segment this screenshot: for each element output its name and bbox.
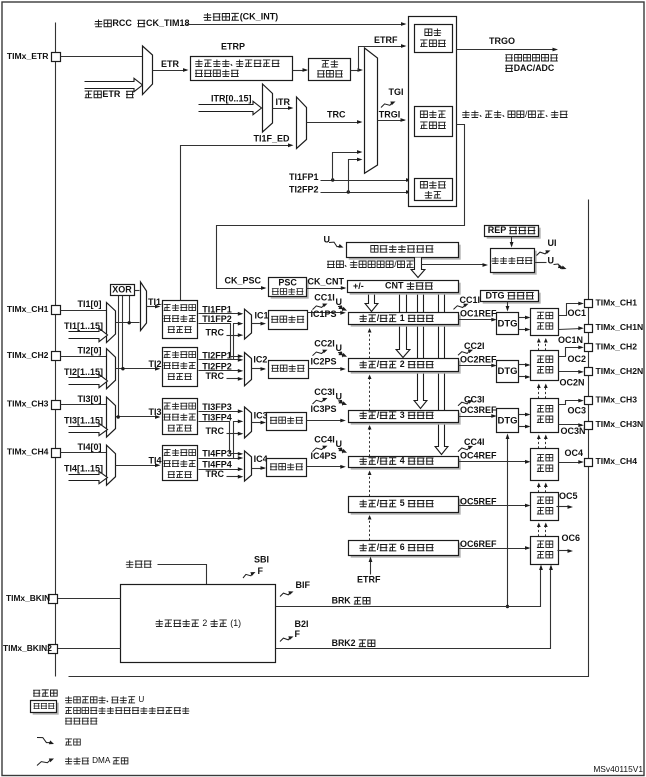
label TI2FP1 xyxy=(202,351,232,361)
label auto reload reg xyxy=(371,245,434,253)
label B2I F xyxy=(295,629,301,639)
svg-text:5: 5 xyxy=(400,498,405,508)
svg-text:IC4PS: IC4PS xyxy=(311,451,337,461)
svg-text:TI1FP1: TI1FP1 xyxy=(202,304,232,314)
label ETRP xyxy=(221,42,245,52)
label slave mode line2 xyxy=(420,122,446,129)
svg-text:1: 1 xyxy=(400,313,405,323)
label OC3 xyxy=(568,405,587,415)
label TRC top xyxy=(327,110,346,120)
wire TI2FP2 in xyxy=(199,369,244,373)
svg-text:CC3I: CC3I xyxy=(464,394,485,404)
label TI30 xyxy=(78,394,102,404)
wire capture event dashed 2-3 xyxy=(369,377,371,411)
svg-text:DTG: DTG xyxy=(498,366,518,377)
svg-text:BRK2: BRK2 xyxy=(332,638,356,648)
label CC2I left xyxy=(314,339,335,349)
bus TI41..15 xyxy=(69,471,108,483)
wire output event dashed 4-5 x545 xyxy=(545,485,547,493)
pin TIMx_CH3 xyxy=(585,397,593,405)
svg-text:TIMx_CH3N: TIMx_CH3N xyxy=(596,419,644,429)
svg-text:F: F xyxy=(295,629,301,639)
bus CNT to capture 3 xyxy=(414,293,427,409)
svg-text:TRC: TRC xyxy=(206,426,225,436)
label B2I xyxy=(295,619,309,629)
svg-text:(CK_INT): (CK_INT) xyxy=(240,12,279,22)
label TI31-15 xyxy=(64,415,103,425)
legend text line2 xyxy=(65,707,189,714)
label ETRF top xyxy=(374,35,398,45)
wire ETRF to trigger mux xyxy=(351,68,364,72)
svg-text:TI4FP3: TI4FP3 xyxy=(202,449,232,459)
label encoder line1 xyxy=(420,181,445,188)
pin TIMx_CH2N xyxy=(585,368,593,376)
event arrow U down xyxy=(554,264,567,269)
wire TI4 to filter xyxy=(116,463,161,467)
event arrow BIF xyxy=(280,591,294,596)
label outctl2 l2 xyxy=(537,366,553,373)
block XOR xyxy=(111,285,135,296)
label capture 1 xyxy=(359,313,433,323)
node BRK junction xyxy=(506,605,509,608)
event arrow U CC2I left xyxy=(338,352,347,357)
label filter4 l1 xyxy=(164,449,196,456)
label PSC xyxy=(278,278,297,288)
wire U out of repetition counter xyxy=(535,262,547,264)
svg-text:TIMx_CH2: TIMx_CH2 xyxy=(7,350,49,360)
label IC4PS xyxy=(311,451,337,461)
label TI1 xyxy=(148,297,164,307)
label TI10 xyxy=(78,299,102,309)
wire TI1[0] xyxy=(61,310,107,312)
pin TIMx_BKIN2 xyxy=(49,645,58,654)
svg-text:OC4: OC4 xyxy=(565,448,584,458)
mux ETR source select xyxy=(143,46,153,95)
wire slave ctrl to prescaler xyxy=(217,125,465,290)
svg-text:DTG: DTG xyxy=(486,290,505,300)
wire TI2 to filter xyxy=(116,367,161,371)
label trigger ctrl line2 xyxy=(420,40,446,47)
block capture compare register 6 xyxy=(349,541,461,558)
label OC6 xyxy=(562,533,581,543)
mux TI1 input select xyxy=(107,303,116,343)
node XOR tap CH3 xyxy=(117,415,120,418)
wire TI3FP4 cross down xyxy=(199,422,244,456)
wire capture event dashed 1-2 xyxy=(369,331,371,359)
label OC2REF xyxy=(460,354,497,364)
label capture 2 xyxy=(359,359,433,369)
block input filter edge detector CH3 xyxy=(163,399,198,435)
mux IC2 select xyxy=(245,353,252,386)
block controller container xyxy=(409,17,457,207)
svg-text:DMA: DMA xyxy=(92,756,111,765)
block input filter xyxy=(309,59,351,81)
svg-text:DTG: DTG xyxy=(498,318,518,329)
label filter2 l3 xyxy=(168,373,192,379)
wire IC3 out xyxy=(252,421,267,425)
block prescaler IC2 xyxy=(269,361,309,379)
label input filter line2 xyxy=(317,71,343,78)
svg-text:TRC: TRC xyxy=(206,469,225,479)
label filter4 l3 xyxy=(168,471,192,477)
event arrow U CC4I left xyxy=(338,448,347,453)
block REP register xyxy=(485,226,541,239)
label BIF xyxy=(296,580,311,590)
block output control 2 xyxy=(531,351,559,381)
svg-text:CC2I: CC2I xyxy=(464,341,485,351)
mux TI4 input select xyxy=(107,445,116,485)
label TI2 xyxy=(149,359,165,369)
wire IC4 out xyxy=(252,466,267,470)
svg-text:TI2FP2: TI2FP2 xyxy=(289,185,319,195)
svg-text:TI1FP1: TI1FP1 xyxy=(289,172,319,182)
event arrow CC3I left xyxy=(313,398,328,404)
wire CK_INT internal clock xyxy=(187,22,407,26)
label TI3 xyxy=(149,407,165,417)
event arrow U to ARR xyxy=(329,242,344,248)
svg-text:TI3,: TI3, xyxy=(149,407,165,417)
wire TI2FP2 branch to trigger mux xyxy=(349,158,363,193)
event arrow CC4I right xyxy=(458,446,473,452)
wire output event dashed 5-6 x538 xyxy=(538,525,540,537)
wire DTG3 out b xyxy=(519,425,531,429)
svg-text:TRC: TRC xyxy=(206,327,225,337)
label OC2 xyxy=(568,354,587,364)
svg-text:CK_PSC: CK_PSC xyxy=(225,276,262,286)
wire TI2FP2 to encoder xyxy=(321,190,412,194)
label TGI xyxy=(389,87,404,97)
label break circuit xyxy=(155,618,241,628)
block DTG register xyxy=(481,291,541,304)
event arrow B2IF xyxy=(280,636,294,641)
block auto-reload register xyxy=(347,243,461,260)
wire OC1 xyxy=(559,302,584,316)
wire OC2N xyxy=(559,370,584,374)
wire TRC ch1 xyxy=(227,333,244,337)
block output control 6 xyxy=(531,537,559,565)
event arrow TGI xyxy=(381,102,396,108)
mux IC4 select xyxy=(245,451,252,481)
wire capture event dashed 5-6 xyxy=(369,518,371,541)
wire OC3REF xyxy=(459,414,497,418)
svg-text:OC5REF: OC5REF xyxy=(460,496,497,506)
block prescaler IC1 xyxy=(269,311,308,330)
svg-text:TI3[1..15]: TI3[1..15] xyxy=(64,415,103,425)
wire BRK to DTG3 xyxy=(506,434,510,607)
label CC1I right xyxy=(460,295,481,305)
svg-text:TIMx_CH4: TIMx_CH4 xyxy=(7,447,49,457)
wire ETRF to capture 6 xyxy=(369,557,373,575)
svg-text:TI1[0]: TI1[0] xyxy=(78,299,102,309)
svg-text:ITR: ITR xyxy=(276,97,291,107)
wire XOR tap CH2 xyxy=(122,296,124,369)
svg-text:OC2N: OC2N xyxy=(560,377,585,387)
label TI1FP2 xyxy=(202,314,232,324)
wire BKIN2 to break xyxy=(58,648,121,650)
svg-text:OC2: OC2 xyxy=(568,354,587,364)
label U CC2I left xyxy=(336,343,343,353)
label repetition counter xyxy=(492,257,533,264)
label TI1FP1 trig xyxy=(289,172,319,182)
wire XOR tap CH3 xyxy=(118,296,120,417)
wire TI3FP3 xyxy=(199,409,244,413)
label ITR xyxy=(276,97,291,107)
label OC1REF xyxy=(460,308,497,318)
node TI1FP1 junction xyxy=(331,178,334,181)
svg-text:TIMx_CH3: TIMx_CH3 xyxy=(7,399,49,409)
label filter3 l3 xyxy=(168,425,192,431)
event arrow SBIF xyxy=(243,572,256,578)
svg-text:OC6: OC6 xyxy=(562,533,581,543)
svg-text:TRC: TRC xyxy=(327,110,346,120)
wire bottom bus xyxy=(69,200,589,677)
svg-text:TGI: TGI xyxy=(389,87,404,97)
svg-text:IC4: IC4 xyxy=(254,454,268,464)
label to DAC ADC xyxy=(505,63,555,73)
svg-text:TIMx_CH2N: TIMx_CH2N xyxy=(596,366,644,376)
legend text line3 xyxy=(65,718,97,724)
label TRGO xyxy=(489,36,515,46)
svg-text:IC3PS: IC3PS xyxy=(311,404,337,414)
label CC4I right xyxy=(464,437,485,447)
svg-text:2: 2 xyxy=(202,618,207,628)
wire ETR pin to mux xyxy=(61,56,143,58)
svg-text:PSC: PSC xyxy=(278,278,297,288)
label TRC ch3 xyxy=(206,426,225,436)
label OC5 xyxy=(559,491,578,501)
wire OC1REF xyxy=(459,318,497,322)
mux TI2 input select xyxy=(107,349,116,389)
wire DTG2 out a xyxy=(519,363,531,367)
wire ITR xyxy=(273,106,294,110)
svg-text:OC3REF: OC3REF xyxy=(460,405,497,415)
wire TI2FP1 cross up xyxy=(199,322,244,360)
block capture compare register 3 xyxy=(349,411,461,425)
wire DTG1 out b xyxy=(519,328,531,332)
svg-text:TIMx_CH3: TIMx_CH3 xyxy=(596,395,638,405)
label plus minus xyxy=(353,281,364,291)
wire IC1PS xyxy=(308,311,346,315)
block input filter edge detector CH2 xyxy=(163,348,198,387)
wire TRC ch3 xyxy=(227,432,244,436)
svg-text:TIMx_CH1: TIMx_CH1 xyxy=(596,298,638,308)
block capture compare register 1 xyxy=(349,313,461,327)
event arrow CC1I right xyxy=(454,304,469,310)
block capture compare register 2 xyxy=(349,359,461,374)
label TI2FP2 trig xyxy=(289,185,319,195)
label TI3FP3 xyxy=(202,402,232,412)
wire TI4[0] xyxy=(61,452,107,454)
wire TI4FP3 cross up xyxy=(199,420,244,459)
wire OC3N xyxy=(559,423,584,427)
svg-text:OC1: OC1 xyxy=(568,308,587,318)
svg-text:ETRF: ETRF xyxy=(374,35,398,45)
svg-text:OC3: OC3 xyxy=(568,405,587,415)
label outctl4 l1 xyxy=(537,454,553,461)
label polarity box line1 xyxy=(195,60,279,67)
label outctl5 l2 xyxy=(537,507,553,514)
label TI1F_ED xyxy=(254,134,291,144)
svg-text:IC1PS: IC1PS xyxy=(311,309,337,319)
svg-text:3: 3 xyxy=(400,410,405,420)
event arrow CC2I right xyxy=(458,350,473,356)
pin TIMx_ETR xyxy=(52,53,61,62)
label U rep xyxy=(548,255,555,265)
svg-text:TI3FP4: TI3FP4 xyxy=(202,412,232,422)
svg-text:DAC/ADC: DAC/ADC xyxy=(514,63,555,73)
wire TI1FP2 cross down xyxy=(199,324,244,359)
svg-text:CC3I: CC3I xyxy=(314,387,335,397)
bus TI31..15 xyxy=(69,423,108,435)
wire TRC xyxy=(307,120,363,124)
svg-text:2: 2 xyxy=(400,359,405,369)
label OC3N xyxy=(561,426,586,436)
wire DTG2 out b xyxy=(519,375,531,379)
block input filter edge detector CH1 xyxy=(163,301,198,339)
block repetition counter xyxy=(491,249,537,275)
wire OC6 xyxy=(558,549,574,553)
label TRC ch4 xyxy=(206,469,225,479)
block DTG 3 xyxy=(497,409,519,433)
label U arr xyxy=(324,235,331,245)
wire BRK request xyxy=(276,565,543,607)
svg-text:TIMx_ETR: TIMx_ETR xyxy=(7,51,49,61)
legend interrupt DMA symbol xyxy=(37,759,54,766)
label legend register xyxy=(34,703,55,708)
mux IC3 select xyxy=(245,407,252,438)
label DTG1 text xyxy=(498,318,518,329)
legend text line1 xyxy=(65,695,144,704)
svg-text:MSv40115V1: MSv40115V1 xyxy=(593,764,643,774)
svg-text:CC1I: CC1I xyxy=(314,293,335,303)
wire output event dashed 3-4 x538 xyxy=(538,437,540,449)
wire internal source xyxy=(158,565,207,585)
label internal source xyxy=(126,560,152,567)
wire OC5 xyxy=(557,505,574,509)
label OC2N xyxy=(560,377,585,387)
label IC3PS xyxy=(311,404,337,414)
svg-text:TRGO: TRGO xyxy=(489,36,515,46)
pin TIMx_CH3N xyxy=(585,422,593,430)
bus CNT to capture 4 xyxy=(435,293,448,455)
label filter3 l1 xyxy=(164,403,196,410)
svg-text:TIMx_BKIN2: TIMx_BKIN2 xyxy=(3,643,52,653)
wire DTG1 out a xyxy=(519,316,531,320)
label TI3FP4 xyxy=(202,412,232,422)
label CK_CNT xyxy=(308,276,345,286)
svg-text:CK_CNT: CK_CNT xyxy=(308,276,345,286)
label outctl6 l1 xyxy=(537,541,553,548)
label TI41-15 xyxy=(64,464,103,474)
wire BKIN to break xyxy=(58,598,121,600)
label OC4REF xyxy=(460,451,497,461)
svg-text:BIF: BIF xyxy=(296,580,311,590)
svg-text:TI2FP2: TI2FP2 xyxy=(202,361,232,371)
bus TI11..15 xyxy=(69,328,108,341)
label OC3REF xyxy=(460,405,497,415)
svg-text:(1): (1) xyxy=(230,618,241,628)
mux IC1 select xyxy=(245,309,252,339)
wire BRK2 request xyxy=(276,565,553,649)
wire output event dashed 2-3 x545 xyxy=(545,387,547,399)
label TI40 xyxy=(78,442,102,452)
label IC1 xyxy=(255,310,269,320)
wire output event dashed 2-3 x538 xyxy=(538,387,540,399)
label capture 5 xyxy=(359,498,433,508)
svg-text:XOR: XOR xyxy=(112,284,132,294)
svg-text:TI4[0]: TI4[0] xyxy=(78,442,102,452)
wire IC1 out xyxy=(252,322,267,326)
label TI11-15 xyxy=(64,321,103,331)
block CNT counter xyxy=(348,281,461,295)
label outctl2 l1 xyxy=(537,356,553,363)
label polarity box line2 xyxy=(195,70,239,77)
wire TRGI xyxy=(378,118,407,122)
mux trigger input select xyxy=(365,48,378,173)
block DTG 1 xyxy=(497,313,519,335)
pin TIMx_BKIN xyxy=(49,595,58,604)
svg-text:CC4I: CC4I xyxy=(464,437,485,447)
svg-text:CC1I: CC1I xyxy=(460,295,481,305)
svg-text:U: U xyxy=(138,695,144,704)
label ITR 0..15 xyxy=(211,94,252,104)
svg-text:OC2REF: OC2REF xyxy=(460,354,497,364)
pin TIMx_CH1 input xyxy=(52,306,61,315)
label prescaler2 xyxy=(272,365,305,372)
label TI2FP2 xyxy=(202,361,232,371)
label legend interrupt dma xyxy=(65,756,128,765)
block capture compare register 4 xyxy=(349,457,461,470)
label BRK request xyxy=(332,595,370,605)
svg-text:BRK: BRK xyxy=(332,595,352,605)
wire OC1N xyxy=(559,326,584,330)
wire OC6REF xyxy=(459,546,531,550)
svg-text:+/-: +/- xyxy=(353,281,364,291)
svg-text:ETR: ETR xyxy=(161,59,180,69)
wire CK_CNT xyxy=(307,286,347,290)
wire TRC ch4 xyxy=(227,475,244,479)
block output control 3 xyxy=(531,399,559,433)
pin TIMx_CH4 input xyxy=(52,449,61,458)
label prescaler1 xyxy=(271,316,304,323)
event arrow CC2I left xyxy=(313,350,328,356)
label IC1PS xyxy=(311,309,337,319)
pin TIMx_CH3 input xyxy=(52,401,61,410)
label OC4 xyxy=(565,448,584,458)
label SBI xyxy=(254,555,269,565)
block polarity selection edge detector prescaler xyxy=(191,57,293,81)
wire IC2 out xyxy=(252,367,267,371)
label U CC1I left xyxy=(336,297,343,307)
svg-text:TI2,: TI2, xyxy=(149,359,165,369)
svg-text:TIMx_CH1: TIMx_CH1 xyxy=(7,304,49,314)
svg-text:TIMx_BKIN: TIMx_BKIN xyxy=(6,593,50,603)
wire OC2REF xyxy=(459,364,497,368)
label outctl1 l1 xyxy=(537,312,553,319)
mux TI1 xor select xyxy=(141,282,147,331)
svg-text:ETRP: ETRP xyxy=(221,42,245,52)
label trigger ctrl line1 xyxy=(425,29,441,36)
label filter3 l2 xyxy=(164,414,196,421)
label TI21-15 xyxy=(64,367,103,377)
wire OC4 xyxy=(559,460,584,464)
label to other timers xyxy=(505,55,558,62)
svg-text:RCC: RCC xyxy=(112,18,132,28)
wire TI2FP1 xyxy=(199,358,244,362)
label TRC ch1 xyxy=(206,327,225,337)
wire ETRP to filter xyxy=(293,68,309,72)
wire capture event dashed 3-4 xyxy=(369,428,371,457)
